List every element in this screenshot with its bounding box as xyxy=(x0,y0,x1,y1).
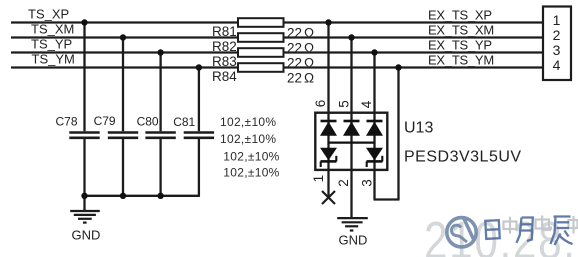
svg-text:Ω: Ω xyxy=(304,56,314,71)
svg-text:Ω: Ω xyxy=(304,26,314,41)
svg-text:R81: R81 xyxy=(212,24,237,39)
svg-text:R84: R84 xyxy=(212,69,237,84)
svg-text:22: 22 xyxy=(287,41,302,56)
svg-text:EX_TS_YP: EX_TS_YP xyxy=(428,38,492,53)
svg-text:Ω: Ω xyxy=(304,71,314,86)
svg-text:C78: C78 xyxy=(56,115,78,129)
svg-text:3: 3 xyxy=(553,42,561,58)
svg-text:EX_TS_XP: EX_TS_XP xyxy=(428,8,492,23)
svg-text:PESD3V3L5UV: PESD3V3L5UV xyxy=(404,149,522,166)
svg-text:2: 2 xyxy=(553,27,561,43)
svg-text:102,±10%: 102,±10% xyxy=(220,132,276,146)
svg-text:4: 4 xyxy=(553,57,561,73)
svg-text:3: 3 xyxy=(359,179,374,187)
svg-text:C81: C81 xyxy=(173,115,195,129)
svg-text:C79: C79 xyxy=(94,114,116,128)
svg-text:GND: GND xyxy=(339,233,368,248)
svg-text:R82: R82 xyxy=(212,39,237,54)
svg-text:TS_XP: TS_XP xyxy=(28,7,69,22)
svg-text:6: 6 xyxy=(313,100,328,108)
svg-text:102,±10%: 102,±10% xyxy=(223,166,279,180)
svg-text:TS_XM: TS_XM xyxy=(31,22,74,37)
svg-text:U13: U13 xyxy=(404,120,433,137)
svg-text:4: 4 xyxy=(359,100,374,108)
svg-text:1: 1 xyxy=(553,12,561,28)
svg-text:EX_TS_XM: EX_TS_XM xyxy=(428,23,494,38)
svg-text:22: 22 xyxy=(287,56,302,71)
svg-text:102,±10%: 102,±10% xyxy=(220,115,276,129)
svg-text:C80: C80 xyxy=(137,115,159,129)
svg-text:102,±10%: 102,±10% xyxy=(223,149,279,163)
svg-text:2: 2 xyxy=(336,179,351,187)
svg-text:TS_YM: TS_YM xyxy=(32,52,75,67)
svg-text:TS_YP: TS_YP xyxy=(31,37,72,52)
svg-text:1: 1 xyxy=(311,175,326,183)
svg-text:GND: GND xyxy=(72,228,101,243)
svg-text:5: 5 xyxy=(337,100,352,108)
svg-text:EX_TS_YM: EX_TS_YM xyxy=(428,53,494,68)
svg-text:22: 22 xyxy=(287,26,302,41)
svg-text:R83: R83 xyxy=(212,54,237,69)
svg-text:Ω: Ω xyxy=(304,41,314,56)
svg-text:22: 22 xyxy=(287,71,302,86)
